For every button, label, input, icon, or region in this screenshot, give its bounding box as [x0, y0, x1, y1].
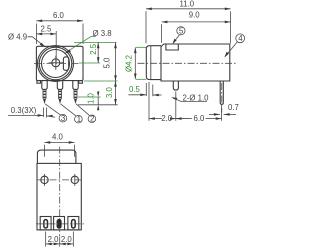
- dim 0.7 right arrow: [224, 113, 236, 115]
- svg-text:3.0: 3.0: [105, 86, 114, 98]
- right outer dim 5.0 line: [115, 42, 117, 81]
- dim 4.0 line: [44, 141, 74, 143]
- hole left vertical tick: [44, 174, 46, 186]
- svg-text:4: 4: [238, 34, 243, 43]
- svg-text:Ø 4.9: Ø 4.9: [8, 32, 27, 41]
- balloon 5 leader: [173, 35, 179, 43]
- inner circle (hole, Ø3.8): [42, 50, 70, 78]
- svg-text:11.0: 11.0: [180, 0, 195, 9]
- side view centerline: [138, 62, 237, 64]
- right pin: [220, 81, 223, 104]
- center pin crosshair horizontal: [49, 62, 63, 64]
- hole right: [71, 176, 78, 183]
- notch on top: [166, 44, 178, 50]
- pin 1 crimp bands: [43, 91, 45, 99]
- ext at pin tips y104.8: [78, 104, 118, 106]
- dim 2.5 extension right: [55, 31, 57, 62]
- dim 6.0 top: extension lines: [36, 24, 83, 45]
- front body outline: [36, 46, 83, 80]
- bushing face edge line: [150, 46, 152, 79]
- label 2-Ø1.0 leader: [173, 98, 207, 101]
- dim 9.0 ext left: [161, 24, 163, 42]
- label Ø4.9 arrow: [40, 43, 46, 48]
- dim 11.0 arrows: [146, 8, 231, 11]
- dim 4.0 arrows: [44, 141, 74, 144]
- vertical centerline bottom view: [59, 147, 61, 236]
- svg-text:2-Ø 1.0: 2-Ø 1.0: [183, 93, 210, 102]
- right dim 3.0 line: [115, 81, 117, 105]
- dim 9.0 arrows: [162, 21, 231, 24]
- dim 0.3 right arrow tail: [46, 116, 55, 117]
- dim 9.0 line: [162, 21, 231, 23]
- svg-text:Ø4.2: Ø4.2: [125, 55, 134, 72]
- svg-text:0.7: 0.7: [228, 103, 239, 112]
- dim 0.3 arrows: [38, 114, 53, 117]
- right pin centerline: [221, 83, 223, 113]
- dim Ø4.2 ext top (green): [136, 46, 146, 48]
- pin 1 (left) shoulder: [42, 81, 47, 90]
- pad 3: [68, 217, 79, 230]
- svg-text:2: 2: [90, 114, 94, 123]
- horizontal centerline of front view: [34, 62, 79, 64]
- bottom dim 6.0 line: [176, 118, 192, 120]
- dim Ø4.2 ext bottom (green): [136, 78, 146, 80]
- label Ø4.9 leader: [28, 37, 44, 46]
- front left foot: [37, 81, 41, 84]
- right dim 3.0 arrows: [114, 81, 117, 105]
- balloon 5 arrow: [172, 39, 176, 45]
- pad 2 slot (filled): [57, 220, 61, 228]
- right inner dim 2.5 arrows: [97, 42, 100, 63]
- dim 6.0 arrows: [36, 20, 83, 23]
- balloon 4 arrow: [224, 52, 229, 58]
- pin 1 crimp sides: [43, 89, 46, 98]
- pin 3 (right) shoulder: [73, 81, 78, 90]
- center pin crosshair vertical: [55, 56, 57, 70]
- svg-text:2.0: 2.0: [61, 235, 73, 244]
- balloon 4 leader: [226, 42, 238, 56]
- svg-text:6.0: 6.0: [53, 11, 65, 20]
- dim 0.3 underline leader: [8, 114, 44, 116]
- dim Ø4.2 line: [134, 47, 136, 79]
- bottom 2.0/2.0 ext lines: [46, 232, 74, 247]
- circled 3: [59, 114, 67, 122]
- dim 0.3 ext ticks: [44, 108, 47, 118]
- dim 11.0 ext left: [146, 11, 231, 43]
- contact slot: [63, 57, 68, 70]
- front right foot: [79, 81, 83, 84]
- label Ø3.8 leader (green): [66, 37, 96, 53]
- pin 2 (middle) shoulder: [57, 81, 62, 90]
- svg-text:1: 1: [77, 115, 81, 124]
- circled 2: [88, 115, 96, 123]
- ext at crimp top y97 (green): [78, 96, 101, 98]
- leader pin2 to circle 1: [60, 104, 76, 116]
- svg-text:0.3(3X): 0.3(3X): [11, 106, 37, 115]
- bushing (front barrel): [146, 46, 161, 80]
- pin 3 tip: [74, 99, 77, 104]
- dim 4.0 ext lines: [44, 145, 74, 157]
- cap (front bushing seen from below): [37, 150, 76, 163]
- svg-text:2.0: 2.0: [161, 114, 173, 123]
- svg-text:4.0: 4.0: [52, 133, 64, 142]
- center pin circle: [52, 59, 60, 67]
- left pin stub: [173, 81, 178, 90]
- pin 2 crimp bands: [59, 91, 61, 99]
- label Ø3.8 arrow: [64, 49, 71, 53]
- dim 6.0 line: [36, 20, 83, 22]
- bottom dim 6.0 arrows: [176, 117, 222, 120]
- svg-text:2.5: 2.5: [41, 25, 53, 34]
- holes horizontal centerline: [37, 179, 81, 181]
- pin 2 tip: [59, 99, 62, 104]
- hole left: [41, 176, 48, 183]
- balloon 4 circle: [236, 34, 245, 43]
- pin 3 crimp sides: [74, 89, 77, 98]
- pad 3 slot: [72, 220, 76, 228]
- dim 2.5 top: line: [36, 33, 56, 35]
- svg-text:5.0: 5.0: [103, 57, 112, 69]
- right inner dim 1.0 line: [97, 97, 99, 105]
- dim Ø4.2 arrows: [134, 47, 137, 79]
- bottom view body: [37, 163, 81, 230]
- leader pin1 to circle 3: [45, 104, 60, 115]
- right inner dim 2.5: extension at circle top: [74, 41, 117, 43]
- bottom dim 2.0 arrows: [149, 117, 176, 120]
- svg-text:2.0: 2.0: [48, 235, 60, 244]
- bottom 2.0 arrows: [46, 243, 74, 246]
- pads horizontal centerline: [36, 223, 84, 225]
- balloon 5 circle: [177, 27, 185, 35]
- dim 0.5 right arrow: [153, 94, 162, 96]
- right centerline ext at y63: [79, 62, 100, 64]
- svg-text:9.0: 9.0: [189, 10, 201, 19]
- right inner dim 2.5 line: [97, 42, 99, 63]
- label 2-Ø1.0 arrow: [171, 97, 177, 100]
- outer circle (barrel face, Ø4.9): [38, 46, 74, 82]
- bottom dim line 2.0: [149, 118, 162, 120]
- dim 11.0 line: [146, 8, 231, 10]
- pad 1: [40, 217, 51, 230]
- svg-text:0.5: 0.5: [129, 85, 141, 94]
- pin 3 crimp bands: [74, 91, 76, 99]
- circled 1: [75, 115, 83, 123]
- side body outline with top-left chamfer: [161, 44, 230, 81]
- svg-text:1.0: 1.0: [87, 92, 96, 104]
- dim 2.5 arrows: [36, 33, 56, 36]
- leader pin3 to circle 2: [76, 104, 90, 116]
- ext at body bottom y81: [84, 80, 118, 82]
- dim 0.5 left arrow: [128, 94, 146, 96]
- pin 1 tip: [43, 99, 46, 104]
- svg-text:3: 3: [61, 114, 65, 123]
- svg-text:2.5: 2.5: [89, 43, 98, 55]
- dim 0.7 left arrow: [209, 113, 220, 115]
- bottom dims ext lines: [149, 82, 222, 121]
- ring circle: [39, 47, 72, 80]
- dim 0.5 ext lines: [146, 83, 153, 96]
- pad 2: [54, 217, 65, 230]
- svg-text:5: 5: [179, 26, 184, 35]
- bottom dim line left 2.0: [46, 243, 74, 245]
- hole right vertical tick: [74, 174, 76, 186]
- svg-text:6.0: 6.0: [194, 114, 206, 123]
- pad 1 slot: [44, 220, 48, 228]
- pin 2 crimp sides: [59, 89, 62, 98]
- right inner dim 1.0 arrows (outside): [97, 92, 99, 111]
- right outer dim 5.0 arrows: [114, 42, 117, 81]
